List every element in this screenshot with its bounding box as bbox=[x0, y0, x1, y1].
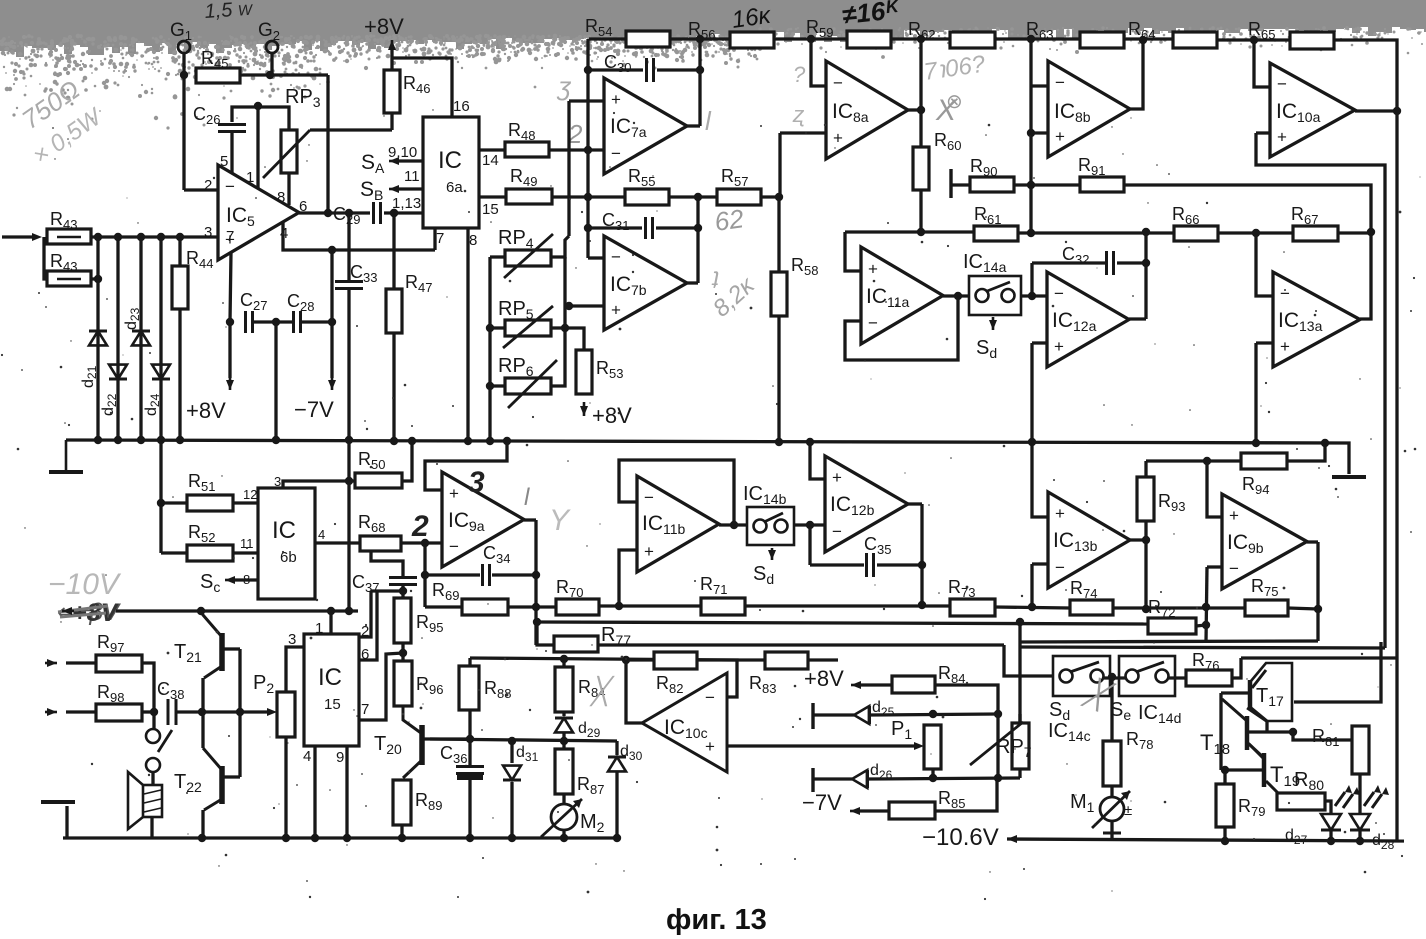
node C38 left bbox=[150, 708, 158, 716]
wire C38 right bbox=[176, 710, 202, 713]
resistor R45 bbox=[196, 68, 240, 83]
svg-text:Ɩ: Ɩ bbox=[524, 484, 530, 511]
node R79 bus bbox=[1221, 837, 1229, 845]
svg-text:16κ: 16κ bbox=[730, 2, 774, 34]
wire R51 right bbox=[233, 501, 258, 504]
wire R63 to R64 bbox=[1124, 37, 1173, 40]
arrow SB pin bbox=[389, 188, 399, 191]
node pin9 bus bbox=[343, 834, 351, 842]
wire T17 base feed bbox=[1221, 691, 1250, 694]
resistor R64 bbox=[1173, 32, 1217, 48]
wire R85 right bbox=[935, 778, 997, 811]
capacitor C38 bbox=[168, 699, 176, 725]
node d24 top bbox=[157, 233, 165, 241]
wire y658 to x1397 bbox=[1241, 656, 1397, 659]
wire R62 to R63 bbox=[995, 37, 1080, 40]
RP3 wiper arrow bbox=[263, 130, 310, 178]
wire RP3 wiper to R46 bbox=[310, 128, 392, 131]
wire IC12b plus bbox=[810, 442, 825, 479]
resistor R78 bbox=[1103, 741, 1121, 786]
wire R51 left bbox=[161, 501, 187, 504]
wire R48 to IC7a inv bbox=[549, 148, 604, 151]
wire R70 to R71 bbox=[599, 604, 701, 607]
arrow +8V pin7 bbox=[229, 378, 232, 390]
wire T18 collector bbox=[1222, 699, 1247, 721]
wire to R97 bbox=[66, 661, 96, 664]
resistor R76 bbox=[1186, 670, 1232, 686]
transistor T18 bar bbox=[1245, 716, 1250, 750]
wire M1 bottom bbox=[1110, 821, 1113, 841]
wire d25 left bbox=[813, 713, 854, 716]
wire T20 emitter bbox=[403, 760, 422, 778]
resistor R82 bbox=[654, 652, 697, 669]
resistor R89 bbox=[393, 780, 411, 825]
wire R71 to R73 bbox=[745, 604, 950, 607]
node d31 bus bbox=[508, 834, 516, 842]
node R67 right bbox=[1367, 228, 1375, 236]
wire RP left bracket bbox=[488, 257, 491, 440]
svg-text:−7V: −7V bbox=[802, 790, 842, 815]
wire T22 emitter bbox=[204, 799, 222, 810]
wire d24 line bbox=[159, 237, 162, 440]
potentiometer RP7 bbox=[1012, 723, 1029, 769]
wire IC10a out bbox=[1355, 109, 1397, 112]
wire R94 right bbox=[1287, 443, 1325, 461]
svg-text:−: − bbox=[644, 488, 654, 507]
svg-text:−: − bbox=[1280, 284, 1290, 303]
wire R45 right to RP3 bracket bbox=[240, 73, 328, 76]
wire pin1 stem bbox=[256, 106, 259, 189]
wire R75 right bbox=[1288, 608, 1318, 609]
bus junction bbox=[345, 436, 353, 444]
wire R88 top bbox=[468, 658, 471, 666]
wire IC9b out bbox=[1307, 540, 1318, 543]
wire R66 to R67 bbox=[1218, 231, 1293, 234]
wire R87 to M2 bbox=[562, 794, 565, 804]
wire IC13a out up bbox=[1360, 233, 1371, 319]
wire C26 to pin5 bbox=[230, 133, 233, 173]
resistor R71 bbox=[701, 598, 745, 615]
node P1 bottom bbox=[929, 774, 937, 782]
svg-text:⊗: ⊗ bbox=[946, 91, 963, 113]
svg-text:+: + bbox=[1055, 504, 1065, 523]
resistor R96 bbox=[394, 661, 412, 706]
wire R58 line bbox=[777, 197, 780, 441]
wire G2 down bbox=[270, 53, 273, 75]
node R62 bbox=[917, 35, 925, 43]
wire R80 left bbox=[1277, 794, 1280, 800]
node R89 bus bbox=[398, 834, 406, 842]
node R57-R58 bbox=[775, 193, 783, 201]
wire IC8b plus bbox=[1031, 131, 1048, 134]
svg-text:3: 3 bbox=[274, 474, 281, 489]
wire T17 emitter down bbox=[1265, 721, 1268, 732]
svg-text:9,10: 9,10 bbox=[388, 144, 417, 161]
wire R54 to R56 bbox=[670, 37, 730, 40]
wire IC15 pin9 bbox=[345, 746, 348, 838]
wire R83 left bbox=[737, 658, 765, 661]
wire R49 to R55 bbox=[552, 195, 625, 198]
node d21 top bbox=[94, 233, 102, 241]
wire R90 left bbox=[951, 183, 970, 186]
arrow Sd IC14a bbox=[992, 317, 995, 330]
svg-text:ʇ: ʇ bbox=[711, 267, 719, 294]
wire mid supply down bbox=[274, 322, 277, 440]
wire IC8a out bbox=[908, 108, 921, 111]
wire RP5 left bbox=[490, 326, 505, 329]
wire IC5 output bbox=[299, 211, 370, 214]
node R66-R67 bbox=[1252, 229, 1260, 237]
wire R44 line bbox=[178, 237, 181, 440]
wire C32 left vert bbox=[1030, 263, 1033, 296]
node R64 bbox=[1139, 36, 1147, 44]
wire T18 emitter bbox=[1249, 744, 1264, 758]
wire mid link bbox=[202, 710, 240, 713]
resistor R49 bbox=[506, 189, 552, 204]
bus junction bbox=[1321, 439, 1329, 447]
wire R93 down bbox=[1144, 540, 1147, 609]
svg-text:+: + bbox=[1229, 506, 1239, 525]
op-amp IC8a bbox=[826, 61, 908, 159]
node d31 top bbox=[508, 737, 516, 745]
meter M1 bbox=[1100, 797, 1124, 821]
resistor R95 bbox=[394, 598, 411, 643]
node rail T21 bbox=[197, 607, 205, 615]
wire IC13b inv down bbox=[1030, 564, 1033, 607]
diode d21 bbox=[89, 331, 107, 345]
capacitor C27 bbox=[246, 311, 253, 333]
diode d24 bbox=[152, 365, 170, 379]
wire P2 bottom bbox=[284, 737, 287, 838]
node d26-x998 bbox=[994, 774, 1002, 782]
wire d27 bottom bbox=[1329, 830, 1332, 841]
bus junction bbox=[775, 438, 783, 446]
RP5 wiper bbox=[503, 306, 553, 348]
wire gnd stem bottom bbox=[65, 806, 68, 838]
svg-text:−: − bbox=[1055, 558, 1065, 577]
wire R53 top bbox=[565, 328, 584, 350]
svg-text:6: 6 bbox=[361, 646, 369, 663]
bus junction bbox=[503, 437, 511, 445]
wire switch feed bbox=[1004, 645, 1053, 676]
potentiometer P1 bbox=[924, 725, 941, 769]
node R88-C36 bbox=[466, 735, 474, 743]
resistor R57 bbox=[717, 189, 761, 205]
wire R90 right bbox=[1014, 183, 1031, 186]
diode d25 bbox=[854, 706, 869, 724]
wire R46 top bbox=[390, 48, 393, 70]
node R51-R52 bracket bbox=[157, 499, 165, 507]
wire IC13a plus down bbox=[1254, 343, 1257, 443]
node x1031-y607 bbox=[1028, 603, 1036, 611]
wire IC8a out up bbox=[919, 39, 922, 110]
svg-text:16: 16 bbox=[453, 98, 470, 115]
node pin4 bus bbox=[311, 834, 319, 842]
node R75 right bbox=[1314, 605, 1322, 613]
svg-text:−7V: −7V bbox=[294, 397, 334, 422]
resistor R83 bbox=[765, 652, 808, 669]
capacitor C30 bbox=[647, 58, 654, 82]
resistor R80 bbox=[1277, 793, 1325, 810]
node P1 top bbox=[929, 710, 937, 718]
wire C28 right bbox=[301, 320, 332, 323]
input arrow left bbox=[41, 236, 44, 239]
wire T19 base link bbox=[1225, 768, 1262, 771]
capacitor C32 bbox=[1107, 251, 1114, 275]
capacitor C29 bbox=[374, 202, 381, 224]
svg-text:4: 4 bbox=[318, 527, 325, 542]
arrow into P1 bbox=[923, 745, 926, 748]
resistor R77 bbox=[554, 636, 598, 652]
wire R64 to R65 bbox=[1217, 38, 1290, 41]
potentiometer RP6 bbox=[505, 378, 551, 394]
node R56 left bbox=[696, 35, 704, 43]
capacitor C33 bbox=[335, 282, 363, 289]
node x349-y481 bbox=[345, 477, 353, 485]
wire out bracket bottom bbox=[224, 775, 240, 778]
wire IC11b out bbox=[719, 523, 747, 526]
wire sw2 to R76 bbox=[1169, 676, 1186, 679]
op-amp IC11b bbox=[637, 476, 719, 572]
node out-y622 bbox=[533, 618, 541, 626]
wire R89 bottom bbox=[400, 825, 403, 838]
wire C34 wire bbox=[425, 573, 480, 576]
switch contact lower bbox=[146, 758, 160, 772]
svg-text:−: − bbox=[611, 248, 621, 267]
node R43 lower bbox=[94, 275, 102, 283]
terminal d25 bbox=[811, 703, 814, 729]
node R55-R57 bbox=[694, 193, 702, 201]
wire C37 bottom bbox=[401, 585, 404, 598]
svg-text:−: − bbox=[611, 144, 621, 163]
node IC13b out bbox=[1142, 536, 1150, 544]
node d28 bus bbox=[1356, 837, 1364, 845]
svg-text:−: − bbox=[705, 688, 715, 707]
wire out bracket vert bbox=[238, 649, 241, 777]
node x1146-y608 bbox=[1142, 605, 1150, 613]
svg-text:+8V: +8V bbox=[364, 14, 404, 39]
node d29 bottom bbox=[560, 737, 568, 745]
wire RP4 right jog bbox=[551, 236, 569, 257]
wire C31 right link bbox=[656, 226, 698, 229]
wire R50 right up bbox=[402, 441, 412, 481]
wire to R98 bbox=[66, 710, 96, 713]
wire speaker to bus bbox=[150, 817, 153, 838]
wire R72 right bbox=[1196, 625, 1206, 626]
speaker bbox=[143, 785, 162, 817]
RP6 wiper bbox=[508, 360, 557, 408]
resistor R72 bbox=[1148, 618, 1196, 634]
wire bus right end bbox=[1347, 443, 1349, 474]
RP7 wiper bbox=[970, 722, 1023, 765]
wire d26 right bbox=[868, 778, 1020, 779]
op-amp IC12b bbox=[825, 456, 908, 552]
wire IC6b pin4 to R68 bbox=[315, 541, 360, 544]
wire R73 to R74 bbox=[995, 607, 1070, 608]
svg-text:12: 12 bbox=[243, 487, 257, 502]
svg-text:+: + bbox=[1054, 337, 1064, 356]
node R47 top bbox=[390, 209, 398, 217]
svg-text:+: + bbox=[1280, 337, 1290, 356]
ground bottom left bbox=[41, 800, 75, 804]
transistor T17 box bbox=[1247, 663, 1292, 721]
wire R57 right bbox=[761, 195, 779, 198]
resistor R73 bbox=[950, 599, 995, 616]
node C36 bus bbox=[466, 834, 474, 842]
input arrow R97 bbox=[45, 662, 57, 665]
wire IC12a plus down bbox=[1030, 343, 1033, 442]
wire IC8b out up bbox=[1130, 40, 1143, 109]
wire IC9b inv vert bbox=[1206, 567, 1207, 642]
resistor R59 bbox=[847, 31, 891, 48]
arrow SA pin bbox=[389, 160, 399, 163]
wire x998 vert bbox=[996, 714, 999, 778]
node P2 bus bbox=[282, 834, 290, 842]
wire M2 bottom bbox=[562, 830, 565, 838]
wire R61 to R66 bbox=[1018, 231, 1174, 234]
wire R78 line bbox=[1110, 678, 1113, 741]
resistor R61 bbox=[974, 226, 1018, 241]
node RP5 left bbox=[486, 324, 494, 332]
wire R81 bottom bbox=[1358, 774, 1361, 814]
wire IC7a out up bbox=[698, 39, 701, 126]
wire P1 bottom bbox=[931, 769, 934, 778]
analog switch IC14c bbox=[1053, 656, 1110, 696]
node output RP3 bbox=[324, 209, 332, 217]
node C33 top bbox=[345, 209, 353, 217]
svg-text:7: 7 bbox=[436, 230, 444, 247]
svg-text:−: − bbox=[833, 74, 843, 93]
wire IC8a plus bbox=[780, 131, 826, 134]
wire y732 bbox=[1246, 730, 1293, 733]
diode LED d28 bbox=[1350, 814, 1370, 830]
node C31 left bbox=[584, 224, 592, 232]
wire C33 lower bbox=[347, 289, 350, 440]
wire C36 bottom bbox=[468, 780, 471, 838]
label d23 rot bbox=[123, 307, 142, 330]
wire T17 collector bbox=[1252, 670, 1266, 688]
node IC8a out bbox=[917, 106, 925, 114]
resistor R46 bbox=[384, 70, 400, 113]
resistor R54 bbox=[626, 31, 670, 47]
svg-text:−: − bbox=[1054, 284, 1064, 303]
wire C35 vert bbox=[808, 525, 811, 565]
R43 upper stripe bbox=[57, 236, 81, 238]
node C37-R95 bbox=[399, 587, 407, 595]
wire R77 left bbox=[537, 622, 554, 645]
wire IC8b inv vert bbox=[1029, 39, 1032, 233]
wire d26 left bbox=[813, 777, 852, 780]
wire R95 bottom bbox=[401, 643, 404, 661]
wire pin6 vert bbox=[359, 591, 377, 660]
wire T19 collector bbox=[1248, 743, 1264, 759]
resistor R65 bbox=[1290, 32, 1334, 49]
resistor R48 bbox=[505, 142, 549, 157]
node d27 bus bbox=[1327, 837, 1335, 845]
node C27-C28 bbox=[272, 318, 280, 326]
svg-text:фиг. 13: фиг. 13 bbox=[666, 904, 767, 936]
terminal G2 bbox=[266, 41, 278, 53]
ground main left bbox=[65, 440, 68, 472]
node IC7a inv bbox=[584, 146, 592, 154]
diode d29 bbox=[555, 718, 573, 732]
wire IC10a plus bbox=[1256, 131, 1270, 134]
bus junction bbox=[272, 436, 280, 444]
wire R82 left bbox=[626, 658, 654, 661]
terminal d26 bbox=[811, 768, 814, 792]
resistor R62 bbox=[950, 32, 995, 48]
wire IC5 pin4 bbox=[283, 222, 435, 250]
node C32-R66 bbox=[1142, 228, 1150, 236]
resistor R79 bbox=[1216, 784, 1234, 827]
svg-text:7: 7 bbox=[361, 701, 369, 718]
wire y658 rail bbox=[470, 658, 737, 660]
svg-text:14: 14 bbox=[482, 152, 499, 169]
wire C30 right link bbox=[657, 68, 700, 71]
wire IC12b out down bbox=[920, 504, 923, 605]
wire R76 right up bbox=[1232, 658, 1241, 678]
bus junction bbox=[94, 436, 102, 444]
label d22 rot bbox=[100, 393, 119, 416]
wire main bus bbox=[66, 440, 1347, 443]
wire R56 to R59 bbox=[774, 37, 847, 40]
wire R57 to IC8a plus bbox=[778, 133, 781, 197]
svg-text:2: 2 bbox=[411, 510, 429, 543]
bus junction bbox=[137, 436, 145, 444]
resistor R43 lower bbox=[47, 271, 91, 286]
node y622-x1020 bbox=[1016, 618, 1024, 626]
potentiometer RP4 bbox=[505, 250, 551, 266]
svg-text:+: + bbox=[449, 484, 459, 503]
resistor R85 bbox=[889, 802, 935, 819]
node C34 right bbox=[532, 571, 540, 579]
wire IC12b out bbox=[908, 502, 922, 505]
wire R82 right fb bbox=[697, 660, 737, 697]
wire RP7 bottom bbox=[1018, 769, 1021, 778]
meter M2 bbox=[551, 804, 577, 830]
wire out bracket top bbox=[224, 647, 240, 650]
resistor R91 bbox=[1080, 177, 1124, 192]
resistor R58 bbox=[771, 272, 787, 316]
node pin4 branch bbox=[328, 246, 336, 254]
resistor R70 bbox=[556, 599, 599, 615]
analog switch IC14b bbox=[747, 507, 794, 545]
node pin1 bbox=[254, 102, 262, 110]
transistor T19 bar bbox=[1262, 753, 1267, 787]
wire IC11a out bbox=[943, 294, 969, 297]
bus junction bbox=[486, 437, 494, 445]
wire IC7b plus input bbox=[569, 304, 604, 307]
wire IC8a inv bbox=[811, 39, 826, 86]
wire IC6a pin8 bbox=[466, 228, 469, 440]
node R68 right bbox=[421, 539, 429, 547]
node G2 join bbox=[266, 71, 274, 79]
wire IC12a plus bbox=[1032, 341, 1047, 344]
node C30 left bbox=[584, 66, 592, 74]
wire IC11a inv bracket bbox=[845, 296, 958, 360]
analog switch IC14d bbox=[1119, 656, 1175, 696]
capacitor C28 bbox=[294, 311, 301, 333]
wire C35 right bbox=[877, 563, 922, 566]
resistor R52 bbox=[187, 545, 233, 561]
resistor R84 bbox=[555, 667, 573, 712]
resistor R87 bbox=[555, 749, 573, 794]
op-amp IC9a bbox=[442, 472, 524, 567]
wire IC6b pin3 to R50 bbox=[283, 481, 355, 488]
svg-text:+: + bbox=[868, 259, 878, 278]
LED arrows d27 bbox=[1335, 792, 1353, 808]
op-amp IC13b bbox=[1048, 492, 1130, 588]
